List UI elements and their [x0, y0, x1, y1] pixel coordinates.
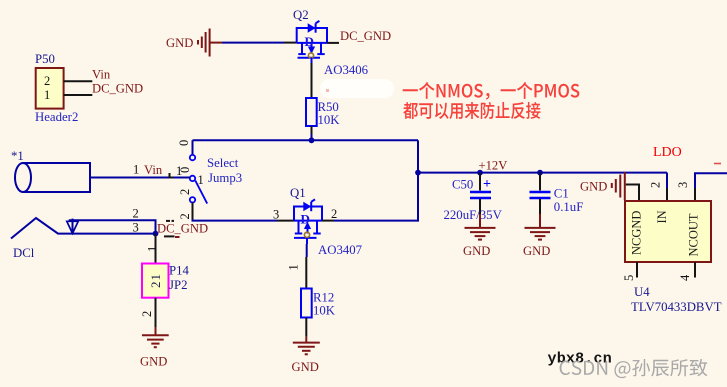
transistor Q2 (AO3406) — [293, 8, 327, 98]
svg-text:2: 2 — [140, 311, 154, 317]
svg-text:Vin: Vin — [144, 163, 163, 177]
svg-text:GND: GND — [292, 360, 319, 374]
svg-text:D: D — [301, 212, 310, 227]
wire switch pin2 to Q1 — [192, 203, 194, 220]
svg-text:TLV70433DBVT: TLV70433DBVT — [631, 300, 722, 314]
wire GND to U4 pin1 — [626, 185, 639, 202]
transistor Q1 (AO3407) — [290, 186, 322, 244]
svg-text:0.1uF: 0.1uF — [554, 200, 584, 214]
wire +12V rail — [418, 172, 667, 174]
svg-text:10K: 10K — [313, 304, 336, 318]
wire pin2 of DCl — [69, 220, 156, 233]
wire top rail y=140 — [193, 139, 419, 141]
sleeve contact triangle — [67, 219, 78, 234]
svg-text:DC_GND: DC_GND — [92, 82, 143, 96]
svg-text:GND: GND — [580, 180, 607, 194]
ground (top left, near Q2) — [166, 29, 210, 57]
gate pin down — [311, 58, 313, 63]
svg-text:GND: GND — [463, 244, 490, 258]
svg-text:U4: U4 — [634, 285, 650, 299]
wire U4 pin3 output — [695, 173, 727, 188]
ground (below R12) — [292, 343, 320, 374]
svg-text:21: 21 — [148, 273, 163, 288]
channel stubs — [301, 43, 303, 54]
body diode loop — [297, 28, 327, 43]
svg-text:+: + — [483, 177, 491, 192]
svg-text:Jump3: Jump3 — [208, 171, 242, 185]
U4 pin4 — [694, 262, 696, 278]
svg-text:LDO: LDO — [653, 145, 682, 160]
svg-text:R12: R12 — [313, 291, 334, 305]
svg-text:220uF/35V: 220uF/35V — [444, 208, 503, 222]
wire riser to switch pin 0 — [192, 140, 194, 155]
svg-text:10K: 10K — [318, 113, 341, 127]
svg-text:ybx8.cn: ybx8.cn — [548, 350, 612, 367]
resistor R50 — [306, 98, 340, 127]
svg-text:5: 5 — [622, 275, 636, 281]
svg-text:DC_GND: DC_GND — [340, 29, 391, 43]
sleeve zigzag wire — [11, 218, 156, 239]
wire vertical x=418 — [417, 140, 419, 221]
svg-text:2: 2 — [178, 213, 192, 219]
svg-text:DC_GND: DC_GND — [157, 222, 208, 236]
svg-text:Q1: Q1 — [290, 186, 306, 200]
regulator U4 TLV70433DBVT — [625, 201, 711, 262]
wire JP2 pin2 to GND — [155, 298, 157, 327]
switch Jump3 (Select) — [177, 140, 242, 204]
svg-text:*1: *1 — [11, 149, 24, 163]
pin 1 of P50 — [64, 94, 93, 96]
wire GND to Q2 source — [210, 42, 222, 44]
svg-text:1: 1 — [176, 164, 182, 178]
U4 pin5 — [636, 262, 638, 278]
resistor R12 — [301, 289, 336, 318]
svg-text:Vin: Vin — [92, 68, 111, 82]
svg-text:JP2: JP2 — [169, 278, 188, 292]
svg-text:1: 1 — [198, 173, 204, 187]
svg-text:Select: Select — [207, 156, 239, 170]
wire rail into U4 pin2 — [666, 173, 668, 188]
wire R50 to node — [311, 126, 313, 134]
ground (below JP2) — [140, 335, 169, 368]
svg-text:P14: P14 — [169, 264, 190, 278]
ground (at U4 pin 1) — [580, 172, 625, 200]
svg-text:NCGND: NCGND — [630, 211, 644, 255]
junction C1 — [537, 170, 543, 176]
capacitor C1 — [530, 173, 584, 227]
svg-text:3: 3 — [676, 182, 690, 188]
svg-text:2: 2 — [331, 207, 337, 221]
svg-text:P50: P50 — [35, 52, 55, 66]
svg-text:DCl: DCl — [13, 246, 35, 260]
net label DC_GND (Q2 drain) — [327, 42, 339, 44]
ground (below C50) — [463, 228, 496, 258]
gate bar — [298, 57, 321, 59]
clipped red label at right edge — [714, 163, 721, 165]
svg-text:2: 2 — [44, 74, 50, 88]
annotation red text line 1 — [403, 82, 580, 100]
pin 2 of P50 — [64, 80, 93, 82]
svg-text:GND: GND — [166, 36, 193, 50]
connector P50 — [35, 52, 78, 124]
wire Q1 drain right — [322, 220, 334, 222]
svg-text:R50: R50 — [318, 100, 339, 114]
junction +12V rail — [415, 170, 421, 176]
wire Q1 gate to R12 — [306, 244, 308, 257]
wire node to JP2 pin1 — [155, 234, 157, 264]
lever — [195, 181, 207, 204]
watermark CSDN @... — [560, 359, 708, 378]
annotation red text line 2 — [403, 102, 540, 119]
svg-text:D: D — [305, 34, 314, 49]
junction DC_GND node — [153, 231, 159, 237]
svg-text:1: 1 — [287, 264, 301, 270]
svg-text:3: 3 — [133, 221, 139, 235]
svg-text:2: 2 — [133, 207, 139, 221]
wire Vin to switch — [90, 177, 190, 179]
body diode loop — [294, 207, 322, 221]
svg-text:AO3407: AO3407 — [318, 243, 363, 257]
source/drain contact bars — [295, 233, 302, 235]
svg-text:3: 3 — [273, 208, 279, 222]
svg-text:C50: C50 — [452, 178, 473, 192]
svg-text:1: 1 — [146, 246, 160, 252]
svg-text:4: 4 — [678, 274, 692, 281]
connector *1 (barrel jack plug) — [11, 149, 90, 192]
body arrow (up) — [304, 222, 311, 229]
svg-text:C1: C1 — [554, 186, 569, 200]
svg-text:2: 2 — [649, 182, 663, 188]
svg-text:1: 1 — [133, 163, 139, 177]
ground (below C1) — [523, 228, 556, 258]
capacitor C50 — [444, 173, 503, 227]
gate bar — [294, 237, 317, 239]
junction R50/top rail — [309, 137, 315, 143]
junction C50 — [477, 170, 483, 176]
svg-text:GND: GND — [140, 355, 167, 369]
body arrow (down) — [311, 43, 313, 49]
channel stubs — [298, 221, 300, 234]
svg-text:1: 1 — [44, 88, 50, 102]
svg-text:+12V: +12V — [479, 159, 508, 173]
source/drain contact bars — [298, 53, 305, 55]
svg-text:GND: GND — [523, 244, 550, 258]
svg-text:Q2: Q2 — [293, 8, 309, 22]
white smudge patch — [320, 79, 394, 98]
svg-text:0: 0 — [177, 140, 191, 146]
gate pin down — [306, 238, 308, 244]
svg-text:NCOUT: NCOUT — [687, 213, 701, 256]
svg-text:Header2: Header2 — [35, 110, 78, 124]
svg-text:AO3406: AO3406 — [324, 63, 369, 77]
svg-text:2: 2 — [178, 189, 192, 195]
wire R12 to GND — [305, 318, 307, 337]
connector P14 JP2 — [142, 264, 190, 298]
svg-text:IN: IN — [655, 210, 669, 223]
